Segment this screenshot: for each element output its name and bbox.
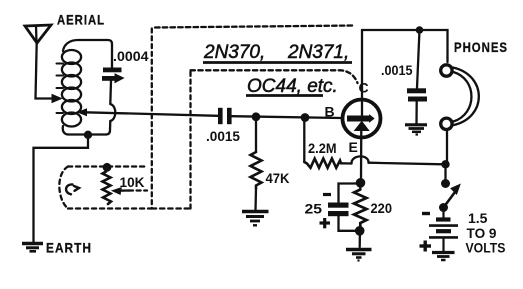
resistor R1 47K	[251, 117, 262, 211]
C4 plus sign	[320, 218, 331, 228]
label B	[325, 104, 335, 120]
wire coil tap arrow to C2	[78, 109, 218, 116]
battery B1	[429, 211, 458, 251]
svg-text:25: 25	[305, 201, 323, 217]
transistor Q1	[343, 30, 381, 181]
svg-text:VOLTS: VOLTS	[466, 240, 506, 256]
junction 47K top	[252, 112, 261, 121]
switch S1	[439, 164, 460, 212]
svg-text:2.2M: 2.2M	[308, 140, 337, 156]
label .0004	[113, 48, 149, 64]
wire coil bottom rail	[63, 126, 106, 135]
label 10K	[120, 174, 145, 190]
aerial antenna symbol	[25, 25, 51, 43]
wire coil top to capacitor branch	[63, 40, 112, 68]
svg-text:2N370,: 2N370,	[203, 42, 265, 63]
label .0015	[206, 128, 240, 144]
dashed wiper lead	[129, 189, 147, 191]
label 220	[371, 200, 393, 216]
svg-text:PHONES: PHONES	[454, 39, 508, 55]
svg-text:B: B	[325, 104, 335, 120]
svg-text:AERIAL: AERIAL	[57, 12, 105, 28]
label PHONES	[454, 39, 508, 55]
junction emitter rail right	[441, 160, 449, 168]
capacitor C4 25uF electrolytic	[328, 203, 357, 231]
svg-text:E: E	[349, 139, 358, 155]
label 47K	[266, 170, 290, 186]
wire C2 to base	[232, 116, 342, 118]
resistor R3 220	[354, 185, 367, 247]
dashed volume control box	[59, 167, 151, 209]
dashed outline left	[151, 29, 153, 209]
label 2N370 2N371	[203, 42, 352, 63]
junction pot top	[103, 163, 112, 172]
label 1.5 TO 9 VOLTS	[466, 210, 506, 256]
wire emitter-rail with hop over emitter	[351, 156, 443, 164]
battery plus sign	[420, 241, 432, 252]
battery minus sign	[422, 212, 430, 215]
dashed outline inner vertical	[189, 71, 191, 209]
ground under battery	[432, 253, 455, 261]
svg-text:1.5: 1.5	[468, 210, 488, 226]
svg-text:47K: 47K	[266, 170, 290, 186]
dashed outline bottom	[152, 207, 191, 209]
svg-text:.0004: .0004	[113, 48, 149, 64]
variable capacitor C1 .0004	[102, 68, 124, 83]
svg-text:.0015: .0015	[206, 128, 240, 144]
label C	[359, 80, 369, 96]
label AERIAL	[57, 12, 105, 28]
potentiometer R4 10K	[103, 172, 131, 205]
wire top rail	[362, 30, 448, 62]
wire phones to switch	[446, 131, 448, 165]
label 25	[305, 201, 323, 217]
C4 minus sign	[323, 193, 331, 196]
dashed outline top	[155, 26, 354, 28]
ground under 220	[346, 250, 372, 261]
label EARTH	[46, 240, 92, 256]
junction base node	[301, 113, 310, 122]
svg-text:.0015: .0015	[381, 62, 413, 78]
label 2.2M	[308, 140, 337, 156]
dashed outline inner top with curve	[191, 70, 358, 83]
label E	[349, 139, 358, 155]
earpiece symbol	[66, 184, 79, 194]
ground under 47K	[242, 212, 269, 226]
svg-text:C: C	[359, 80, 369, 96]
wire to earth	[34, 135, 89, 242]
wire capacitor down with crossover hop	[106, 81, 115, 135]
svg-text:EARTH: EARTH	[46, 240, 92, 256]
ground under C3	[405, 125, 427, 135]
svg-text:10K: 10K	[120, 174, 145, 190]
wire aerial lead to coil tap arrow	[36, 43, 62, 103]
junction rail	[416, 26, 424, 34]
junction coil bottom	[84, 131, 92, 139]
capacitor C2 .0015 coupling	[218, 108, 232, 124]
svg-text:2N371,: 2N371,	[287, 42, 349, 63]
svg-text:OC44, etc.: OC44, etc.	[247, 76, 338, 97]
svg-text:220: 220	[371, 200, 393, 216]
junction R3 C4 bottom	[355, 226, 365, 236]
inductor L1 tuning coil	[57, 50, 82, 127]
phones jack	[441, 65, 479, 130]
ground earth	[22, 244, 43, 252]
label .0015 right	[381, 62, 413, 78]
junction emitter node	[356, 178, 366, 188]
label OC44 etc	[246, 76, 338, 97]
wire emitter node to C4	[339, 184, 361, 203]
capacitor C3 .0015 bypass	[407, 30, 427, 124]
resistor R2 2.2M	[304, 118, 351, 168]
